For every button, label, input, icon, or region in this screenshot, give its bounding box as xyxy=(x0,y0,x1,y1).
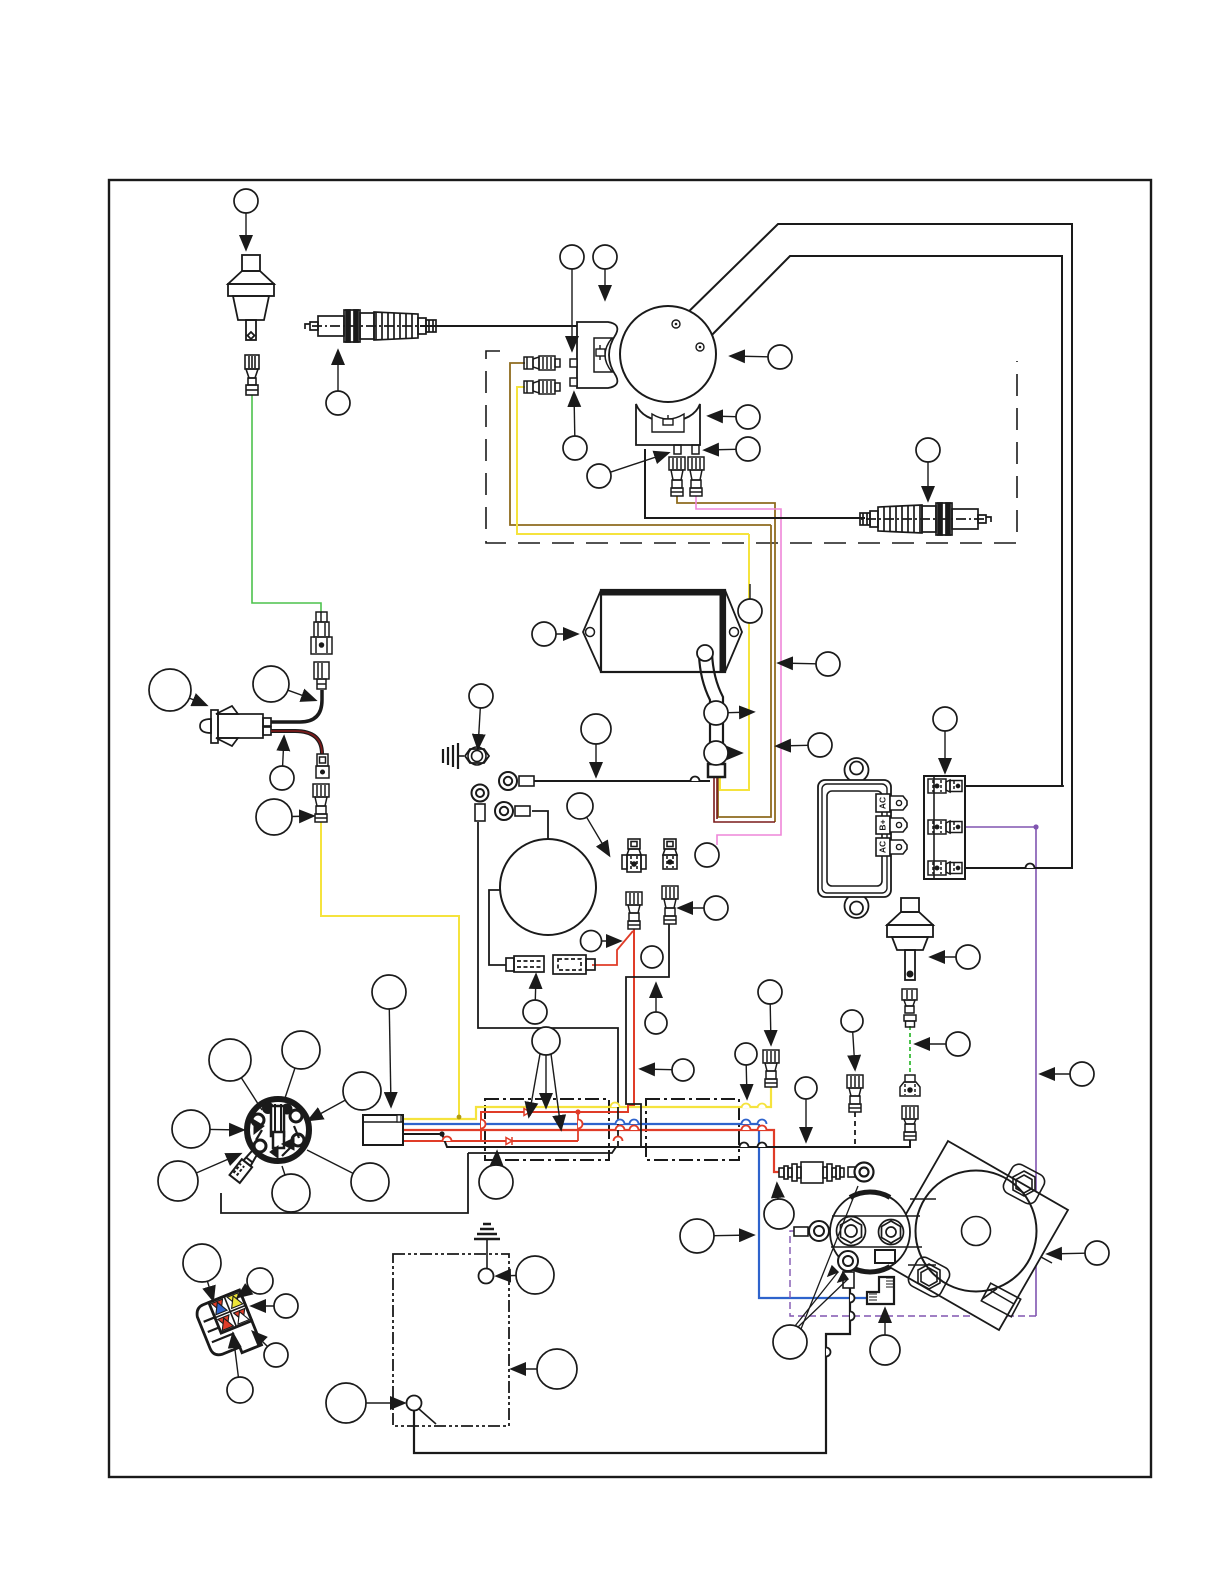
callout balloon 60 red fuse lead xyxy=(581,931,621,952)
CDI harness tube xyxy=(699,653,723,766)
callout balloon 19 ground lead xyxy=(581,714,611,776)
callout balloon 44 black main lead xyxy=(795,1077,817,1141)
callout balloon 49 solenoid terminals xyxy=(773,1325,807,1359)
engine connector 2 socket (black wire) xyxy=(663,839,677,869)
CDI harness tube grommet xyxy=(697,645,713,661)
fuse 1 (in-line fuse holder) xyxy=(506,956,544,972)
callout balloon 63 red down lead xyxy=(641,1059,694,1081)
solenoid terminal nut right xyxy=(879,1220,904,1245)
ignition coil bracket (left of flywheel) xyxy=(577,322,617,388)
starter motor bolt top-right xyxy=(1001,1161,1048,1206)
rectifier terminal AC (pin 3) xyxy=(876,838,907,856)
CDI mounting hole right xyxy=(730,628,739,637)
callout balloon 23 horn red lead xyxy=(270,737,294,790)
trim sensor (top-left) xyxy=(228,255,274,340)
black ground wire long run xyxy=(478,822,618,1147)
spark plug wire path inner (flywheel to terminal strip) xyxy=(700,256,1062,786)
terminal strip bullet pair row 1 xyxy=(928,779,962,793)
red wire fuse2 to engine connector xyxy=(592,931,633,965)
green wire from sensor to connector xyxy=(252,395,321,612)
callout balloon 54 battery negative xyxy=(326,1383,404,1423)
ring terminal on solenoid left post xyxy=(794,1221,829,1241)
bullet connector pair at coil upper terminal (brown) xyxy=(524,356,560,370)
battery negative terminal xyxy=(407,1396,437,1425)
CDI harness tube end box xyxy=(708,764,725,777)
engine spade connector B (black wire) xyxy=(662,886,678,924)
black key-switch ground run xyxy=(221,1147,616,1213)
callout balloon 7 trigger terminal right xyxy=(705,437,760,461)
starter motor mounting plate (diamond) xyxy=(879,1141,1068,1330)
CDI mounting hole left xyxy=(586,628,595,637)
callout balloon 41 yellow lead bend xyxy=(735,1043,757,1098)
choke solenoid xyxy=(500,839,596,935)
callout balloon 37 engine connector 2 xyxy=(679,896,728,920)
connector on horn dark-red wire xyxy=(316,754,329,778)
callout balloon 62 black engine lead xyxy=(645,984,667,1034)
svg-text:AC: AC xyxy=(877,841,887,853)
callout balloon 43 green dotted lead xyxy=(916,1032,970,1056)
black wire battery negative run xyxy=(414,1287,850,1453)
ignition coil terminal tab upper xyxy=(570,359,577,367)
black wire ring terminal B to choke solenoid xyxy=(532,811,548,839)
ring terminal on solenoid lower post xyxy=(838,1251,858,1288)
spade connector on yellow wire above harness xyxy=(763,1050,779,1087)
callout balloon 51 starter motor xyxy=(1048,1241,1109,1265)
wiring-harness box 2 (dash-dot) xyxy=(646,1099,739,1160)
svg-text:B+: B+ xyxy=(877,819,887,830)
callout balloon 57 4-pin pin b xyxy=(252,1294,298,1318)
trigger terminal tab right xyxy=(692,445,699,454)
callout balloon 42 black dashed lead xyxy=(841,1010,863,1069)
callout balloon 46 purple wire xyxy=(1041,1062,1094,1086)
callout balloon 16 CDI harness tube lower xyxy=(704,741,741,765)
horn dark-red wire to connector xyxy=(271,731,322,754)
spark plug 1 (left, horizontal) xyxy=(305,310,436,342)
callout balloon 56 4-pin pin a xyxy=(238,1268,273,1297)
wiring-harness box 1 (dash-dot) xyxy=(485,1099,609,1160)
engine ground bolt with ground symbol xyxy=(443,743,489,769)
yellow wire coil to CDI (left run) xyxy=(517,387,749,534)
yellow wire vertical into CDI harness tube xyxy=(720,534,749,790)
terminal strip bullet pair row 2 xyxy=(928,820,962,834)
black dashed wire to connector above starter xyxy=(854,1112,856,1147)
ignition coil tab detail xyxy=(596,345,605,360)
solenoid terminal nut left xyxy=(837,1217,866,1246)
starter motor lower mounting block xyxy=(981,1283,1020,1317)
callout balloon 38 engine wiring xyxy=(695,843,719,867)
junction dot purple wire xyxy=(1033,824,1038,829)
black wire terminal strip top to inner plug lead xyxy=(966,785,1064,787)
callout balloon 2 spark plug 1 xyxy=(326,351,350,415)
red harness wire B (key to inline fuse) xyxy=(403,1130,779,1172)
black engine ground lead (ring terminal to CDI tube end) xyxy=(534,780,710,782)
callout balloon 50 L-bracket xyxy=(870,1309,900,1365)
bullet connector pair on green wire xyxy=(311,612,332,654)
black harness main wire xyxy=(403,1134,910,1147)
bullet connector below trigger tab right (pink) xyxy=(688,457,704,496)
bullet connector below trigger tab left (brown) xyxy=(669,457,685,496)
engine spade connector A (red wire) xyxy=(626,892,642,929)
spade connector on yellow wire (below horn) xyxy=(313,784,329,822)
callout balloon 36 harness wires xyxy=(529,1027,561,1129)
svg-text:AC: AC xyxy=(877,797,887,809)
temperature switch xyxy=(887,898,933,980)
callout balloon 21 warning horn xyxy=(149,669,206,711)
junction dot yellow wire xyxy=(457,1115,462,1120)
brown wire from trigger bullet connector xyxy=(677,496,775,822)
in-line fuse to starter solenoid xyxy=(779,1162,860,1183)
battery positive terminal xyxy=(479,1269,494,1284)
ring terminal B (choke lead) xyxy=(495,802,530,820)
pink wire from trigger bullet connector xyxy=(696,496,781,845)
ignition coil inner notch xyxy=(594,338,612,372)
bullet connector on temp switch lead xyxy=(904,1015,916,1027)
callout balloon 15 CDI harness tube upper xyxy=(704,701,753,725)
callout balloon 45 temp switch xyxy=(931,945,980,969)
callout balloon 25 harness connector block xyxy=(372,975,406,1106)
black wire choke solenoid to fuse 1 xyxy=(489,890,506,965)
callout balloon 24 horn connector xyxy=(256,799,313,835)
callout balloon 33 key switch g xyxy=(307,1150,389,1201)
brown wire vertical to CDI harness tube xyxy=(718,525,771,817)
callout balloon 11 CDI module xyxy=(532,622,577,646)
spark plug 1 high-tension lead xyxy=(420,325,577,327)
starter cable L-bracket xyxy=(867,1277,894,1304)
starter motor body xyxy=(916,1171,1037,1292)
callout balloon 8 coil terminal lower xyxy=(563,393,587,460)
battery ground symbol xyxy=(474,1224,500,1268)
ring terminal A (engine ground lead) xyxy=(499,772,534,790)
terminal strip bullet pair row 3 xyxy=(928,861,962,875)
remote harness 4-pin connector (isometric) xyxy=(194,1290,262,1363)
callout balloon 59 4-pin pin d xyxy=(227,1334,253,1403)
callout balloon 5 flywheel xyxy=(731,345,792,369)
rectifier xyxy=(818,758,891,918)
spark plug 2 lead from trigger bracket xyxy=(645,449,865,518)
callout balloon 52 battery positive xyxy=(497,1256,554,1294)
purple dashed return to solenoid xyxy=(790,1231,1036,1316)
junction dot red tap xyxy=(575,1109,580,1114)
spark plug wire path outer (flywheel to terminal strip) xyxy=(676,224,1072,868)
callout balloon 14 wire bundle lower xyxy=(777,733,832,757)
callout balloon 13 wire bundle upper xyxy=(779,652,840,676)
battery dashed box xyxy=(393,1254,509,1426)
callout balloon 34 harness ground wire xyxy=(479,1152,513,1199)
connector on horn black wire xyxy=(314,662,329,689)
dark red wires from CDI tube end xyxy=(714,777,775,822)
callout balloon 28 key switch c xyxy=(309,1072,381,1120)
flywheel / distributor rotor xyxy=(620,306,716,402)
bullet receptacle on green dotted wire xyxy=(900,1075,920,1096)
callout balloon 27 key switch b xyxy=(282,1031,320,1098)
ring terminal under ground bolt xyxy=(472,785,489,822)
purple wire terminal strip to solenoid ring xyxy=(966,827,1036,1316)
bullet connector pair at coil lower terminal (yellow) xyxy=(524,380,560,394)
spade connector below temp switch xyxy=(902,989,917,1013)
red harness wire C (lowest) xyxy=(403,1140,578,1142)
ignition key switch xyxy=(247,1099,309,1161)
ignition coil terminal tab lower xyxy=(570,378,577,386)
callout balloon 48 blue lead xyxy=(680,1219,753,1253)
rectifier terminal AC (pin 1) xyxy=(876,794,907,812)
callout balloon 4 ignition coil xyxy=(593,245,617,299)
red engine wire A (choke circuit) xyxy=(481,929,634,1141)
callout balloon 58 4-pin pin c xyxy=(253,1332,288,1367)
yellow wire horn-connector to harness xyxy=(321,822,459,1119)
callout balloon 18 ground bolt xyxy=(469,684,493,748)
engine connector 1 socket (red wire) xyxy=(622,839,646,872)
callout balloon 47 in-line fuse xyxy=(764,1184,794,1229)
diode on red wire A xyxy=(524,1108,530,1116)
callout balloon 53 battery xyxy=(512,1349,577,1389)
ignition key xyxy=(230,1148,261,1183)
trigger coil inner detail xyxy=(652,414,684,432)
callout balloon 22 horn black lead xyxy=(253,666,315,702)
callout balloon 1 trim sensor xyxy=(234,189,258,249)
callout balloon 32 key switch f xyxy=(272,1166,310,1212)
callout balloon 26 key switch a xyxy=(209,1039,262,1110)
fuse 2 (in-line fuse holder) xyxy=(553,955,595,974)
trigger terminal tab left xyxy=(674,445,681,454)
rectifier terminal B+ (pin 2) xyxy=(876,816,907,834)
red tap stub joining red wires xyxy=(577,1112,579,1141)
blue harness wire (key switch to starter solenoid) xyxy=(403,1124,867,1298)
flywheel terminal post 2 xyxy=(696,343,704,351)
warning horn xyxy=(200,706,271,746)
diode on red wire C xyxy=(506,1137,512,1145)
ring terminal on fuse lead xyxy=(855,1163,874,1182)
yellow harness wire (key switch to engine connector) xyxy=(403,1087,771,1119)
terminal strip (bullet connector block) xyxy=(924,776,965,879)
callout balloon 6 trigger coil xyxy=(709,405,760,429)
callout balloon 17 terminal strip xyxy=(933,707,957,772)
callout balloon 20 choke solenoid xyxy=(567,793,609,855)
callout balloon 3 coil terminal upper xyxy=(560,245,584,350)
spark plug 2 (right, mirrored) xyxy=(860,503,991,535)
callout balloon 29 key switch d xyxy=(172,1110,243,1148)
callout balloon 35 fuse 1 xyxy=(523,975,547,1024)
spade connector on black dashed wire xyxy=(847,1075,863,1112)
starter motor bolt bottom-left xyxy=(906,1254,953,1299)
callout balloon 40 yellow lead connector xyxy=(758,980,782,1044)
horn black wire to connector xyxy=(271,690,322,722)
callout balloon 10 spark plug 2 xyxy=(916,438,940,500)
solenoid coil terminal block xyxy=(875,1250,895,1263)
callout balloon 9 trigger terminal left xyxy=(587,453,668,488)
callout balloon 55 4-pin connector xyxy=(183,1244,221,1300)
spade terminal below trim sensor xyxy=(245,355,259,395)
starter solenoid body xyxy=(830,1192,936,1272)
green dotted wire at temp switch chain xyxy=(909,1026,911,1075)
spade connector above starter (black wire) xyxy=(902,1106,918,1140)
callout balloon 30 key switch e xyxy=(158,1154,240,1201)
CDI power pack module xyxy=(583,590,742,672)
callout balloon 61 choke circuit xyxy=(641,946,663,968)
callout 49 leader lines xyxy=(795,1186,858,1329)
brown wire coil to CDI (left run) xyxy=(510,363,771,525)
engine/ignition dashed boundary box xyxy=(486,351,1017,543)
flywheel terminal post 1 xyxy=(672,320,680,328)
trigger coil bracket (below flywheel) xyxy=(636,404,700,445)
key switch harness connector block xyxy=(363,1115,403,1145)
page border frame xyxy=(109,180,1151,1477)
starter motor extra bracket edges xyxy=(962,1257,1052,1304)
wire crossover bumps (strain reliefs) xyxy=(443,777,1035,1357)
black wire engine connector 2 down-run xyxy=(626,924,669,1147)
callout balloon 12 yellow wire at CDI xyxy=(738,584,762,623)
junction dot black main xyxy=(439,1131,444,1136)
